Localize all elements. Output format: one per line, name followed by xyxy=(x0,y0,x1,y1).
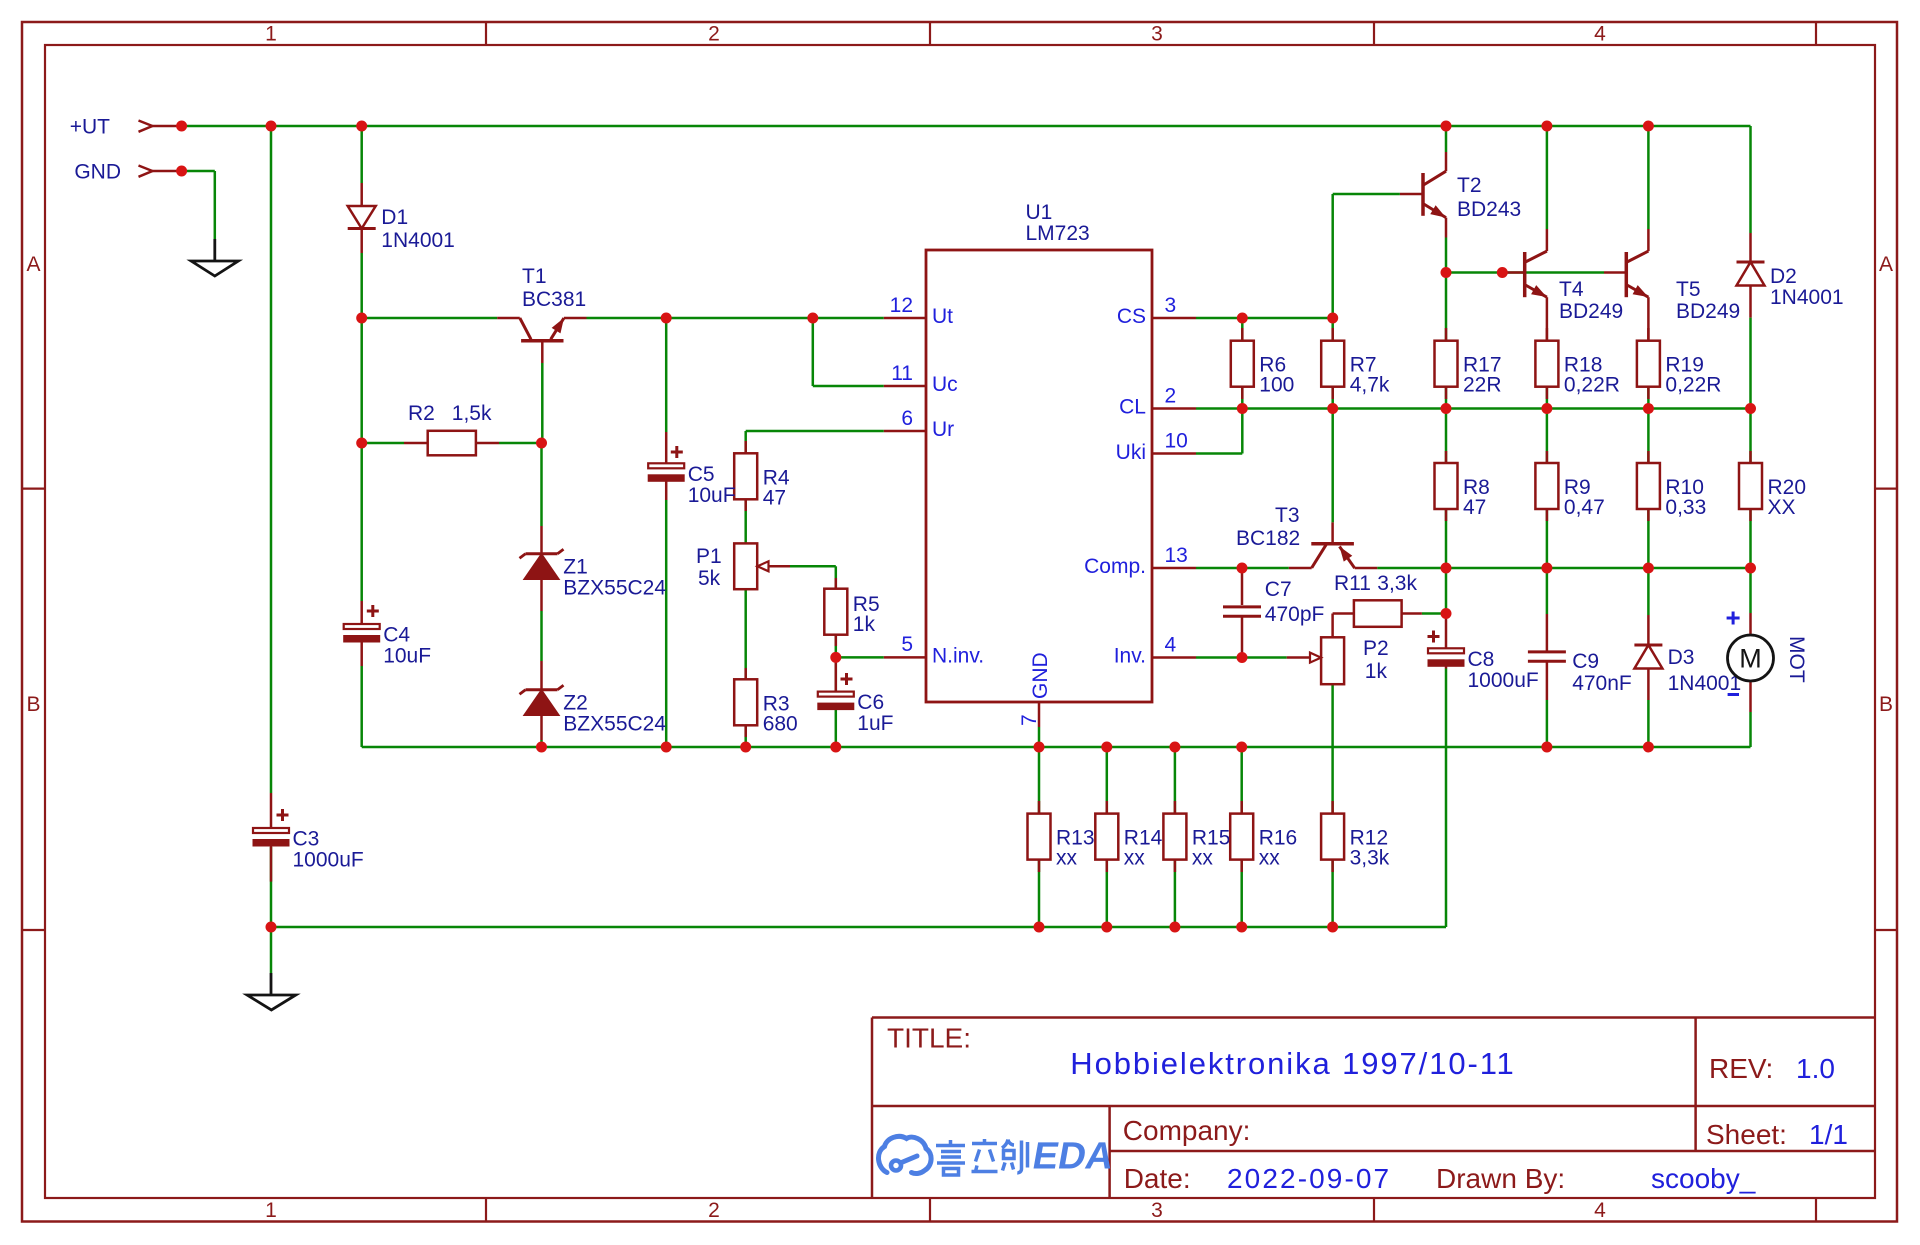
zener Z2 body xyxy=(520,685,564,715)
potentiometer P2 1k xyxy=(1287,637,1389,684)
wire node318 to T1 xyxy=(362,317,498,320)
svg-text:BZX55C24: BZX55C24 xyxy=(563,577,666,600)
wire GND input drop xyxy=(214,171,217,239)
resistor R3 680 xyxy=(734,668,798,737)
capacitor C3 1000uF xyxy=(253,809,364,872)
junction xyxy=(266,121,277,132)
junction xyxy=(1643,563,1654,574)
junction xyxy=(1237,403,1248,414)
svg-text:R2: R2 xyxy=(408,402,435,425)
svg-text:EDA: EDA xyxy=(1029,1135,1117,1178)
diode D1 1N4001 xyxy=(348,183,455,253)
svg-text:Drawn By:: Drawn By: xyxy=(1436,1163,1565,1194)
wire R12 to bus2 xyxy=(1331,860,1334,927)
wire base bus T4 T5 xyxy=(1446,271,1604,274)
wire Z1 to Z2 xyxy=(540,611,543,661)
svg-text:T3: T3 xyxy=(1275,504,1300,527)
svg-text:TITLE:: TITLE: xyxy=(887,1023,971,1054)
junction xyxy=(1034,922,1045,933)
diode D2 body xyxy=(1737,262,1765,286)
resistor R18 xyxy=(1535,341,1620,397)
junction xyxy=(1643,742,1654,753)
svg-text:6: 6 xyxy=(901,407,913,430)
ground (GND input) xyxy=(191,239,238,276)
svg-text:Comp.: Comp. xyxy=(1084,555,1146,578)
wire resistor row2 to comp row xyxy=(1749,509,1752,568)
resistor R9 xyxy=(1535,463,1604,519)
wire node to pin5 xyxy=(836,656,884,659)
junction xyxy=(1034,742,1045,753)
svg-text:3,3k: 3,3k xyxy=(1350,847,1390,870)
svg-text:11: 11 xyxy=(891,362,913,385)
capacitor C8 1000uF xyxy=(1428,631,1539,692)
svg-text:D3: D3 xyxy=(1668,646,1695,669)
svg-text:CS: CS xyxy=(1117,305,1146,328)
svg-text:xx: xx xyxy=(1259,847,1281,870)
svg-text:2022-09-07: 2022-09-07 xyxy=(1227,1163,1391,1194)
wire R2 to node xyxy=(499,442,542,445)
wire comp to C9 xyxy=(1546,568,1549,614)
svg-text:C8: C8 xyxy=(1468,648,1495,671)
transistor T3 BC182 xyxy=(1236,504,1377,568)
junction xyxy=(1745,403,1756,414)
wire resistor to bus2 xyxy=(1038,860,1041,927)
wire comp to D3 xyxy=(1647,568,1650,615)
svg-text:BD249: BD249 xyxy=(1559,300,1623,323)
junction xyxy=(356,313,367,324)
port +UT xyxy=(70,116,182,139)
wire CS row xyxy=(1196,317,1333,320)
wire CS to R6 xyxy=(1241,318,1244,341)
wire R2 node to C4 xyxy=(360,443,363,601)
wire CL row xyxy=(1196,407,1751,410)
resistor R11 3,3k xyxy=(1333,572,1422,637)
wire rail to D1 xyxy=(360,126,363,183)
junction xyxy=(536,438,547,449)
svg-text:0,22R: 0,22R xyxy=(1665,374,1721,397)
wire pin10 riser xyxy=(1241,409,1244,454)
svg-text:2: 2 xyxy=(708,1199,720,1222)
wire Z2 to bus1 xyxy=(540,740,543,747)
wire R19 to CL xyxy=(1647,387,1650,409)
wire node to R17 xyxy=(1445,273,1448,341)
svg-text:P1: P1 xyxy=(696,545,722,568)
wire D2 to CL xyxy=(1749,318,1752,409)
svg-text:1k: 1k xyxy=(1365,660,1388,683)
diode D1 body xyxy=(348,206,376,229)
svg-text:1N4001: 1N4001 xyxy=(1668,672,1742,695)
svg-text:Ur: Ur xyxy=(932,418,954,441)
wire T2 emitter down xyxy=(1445,238,1448,273)
wire bus1 to resistor xyxy=(1240,747,1243,814)
svg-text:47: 47 xyxy=(1463,496,1486,519)
svg-text:3: 3 xyxy=(1151,1199,1163,1222)
diode D2 1N4001 xyxy=(1737,233,1844,318)
svg-text:1k: 1k xyxy=(853,613,876,636)
wire P1 wiper xyxy=(768,565,836,568)
svg-text:12: 12 xyxy=(890,294,913,317)
junction xyxy=(830,652,841,663)
junction xyxy=(356,121,367,132)
wire resistor row2 to comp row xyxy=(1546,509,1549,568)
wire comp to MOT xyxy=(1749,568,1752,613)
port GND xyxy=(74,161,181,184)
wire C8 bottom xyxy=(1445,669,1448,681)
wire GND input xyxy=(182,170,215,173)
svg-text:Uki: Uki xyxy=(1116,441,1146,464)
resistor R8 xyxy=(1435,463,1490,519)
svg-text:C5: C5 xyxy=(688,463,715,486)
U1 pin stubs xyxy=(884,318,1196,727)
ground (C3) xyxy=(247,973,296,1010)
svg-text:3: 3 xyxy=(1151,23,1163,46)
transistor T5 BD249 xyxy=(1604,229,1740,341)
junction xyxy=(1441,121,1452,132)
svg-text:2: 2 xyxy=(1165,385,1177,408)
junction xyxy=(266,922,277,933)
wire bus2 up to C8 xyxy=(1445,680,1448,927)
wire D3 to bus1 xyxy=(1647,700,1650,747)
zener Z2 BZX55C24 xyxy=(520,661,667,740)
wire T2 base riser xyxy=(1331,194,1334,318)
wire C5 to bus1 xyxy=(665,500,668,747)
junction xyxy=(1237,563,1248,574)
resistor R12 xyxy=(1321,814,1390,870)
svg-text:Uc: Uc xyxy=(932,373,958,396)
svg-text:100: 100 xyxy=(1259,374,1294,397)
wire T1 base to R2 node xyxy=(541,363,544,443)
wire C9 to bus1 xyxy=(1546,700,1549,747)
svg-text:T4: T4 xyxy=(1559,278,1584,301)
resistor R5 1k xyxy=(824,578,879,646)
junction xyxy=(1643,121,1654,132)
wire node to C5 xyxy=(665,318,668,432)
junction xyxy=(1441,563,1452,574)
cap C8 red stubs xyxy=(1445,614,1448,669)
svg-text:1N4001: 1N4001 xyxy=(381,229,455,252)
svg-text:3,3k: 3,3k xyxy=(1377,572,1417,595)
junction xyxy=(740,742,751,753)
capacitor C5 10uF xyxy=(648,446,735,507)
junction xyxy=(1541,121,1552,132)
resistor R20 xyxy=(1739,463,1806,519)
svg-text:10uF: 10uF xyxy=(383,645,431,668)
svg-text:BD243: BD243 xyxy=(1457,198,1521,221)
wire R4 to P1 xyxy=(744,499,747,543)
junction xyxy=(830,742,841,753)
wire C4 to bus1 xyxy=(360,666,363,747)
wire comp row right xyxy=(1377,567,1750,570)
junction xyxy=(1327,922,1338,933)
transistor T2 BD243 xyxy=(1400,152,1521,238)
svg-text:C6: C6 xyxy=(857,691,884,714)
svg-text:A: A xyxy=(26,253,40,276)
junction xyxy=(1237,652,1248,663)
junction xyxy=(1101,922,1112,933)
junction xyxy=(1541,742,1552,753)
wire branch pin11 xyxy=(812,318,815,386)
junction xyxy=(661,742,672,753)
wire bus1 to resistor xyxy=(1106,747,1109,814)
junction xyxy=(536,742,547,753)
junction xyxy=(1441,608,1452,619)
resistor R16 xyxy=(1230,814,1297,870)
svg-text:4,7k: 4,7k xyxy=(1350,374,1390,397)
wire C3 to bus2 xyxy=(270,847,273,927)
resistor R10 xyxy=(1637,463,1706,519)
junction xyxy=(176,121,187,132)
junction xyxy=(661,313,672,324)
zener Z1 body xyxy=(520,549,564,579)
junction xyxy=(1327,403,1338,414)
cap C3 red stubs xyxy=(270,793,273,882)
junction xyxy=(1541,563,1552,574)
svg-text:Company:: Company: xyxy=(1123,1115,1251,1146)
resistor R13 xyxy=(1028,814,1095,870)
svg-text:4: 4 xyxy=(1594,23,1606,46)
diode D3 1N4001 xyxy=(1634,615,1741,700)
wire to R5 xyxy=(835,566,838,588)
wire +UT rail drop to D2 xyxy=(1749,126,1752,233)
wire CL to resistor row2 xyxy=(1749,409,1752,464)
junction xyxy=(1643,403,1654,414)
svg-text:1uF: 1uF xyxy=(857,712,893,735)
junction xyxy=(1236,922,1247,933)
wire comp node to C8 node xyxy=(1445,568,1448,614)
wire +UT rail xyxy=(182,125,1751,128)
svg-text:BD249: BD249 xyxy=(1676,300,1740,323)
svg-text:XX: XX xyxy=(1768,496,1796,519)
svg-text:xx: xx xyxy=(1192,847,1214,870)
wire bus1 ground bus xyxy=(362,746,1751,749)
cap C9 red stubs xyxy=(1546,614,1549,700)
wire pin10 xyxy=(1196,452,1242,455)
svg-text:P2: P2 xyxy=(1363,637,1389,660)
wire to Z1 xyxy=(540,443,543,526)
svg-text:470pF: 470pF xyxy=(1265,603,1325,626)
svg-text:0,22R: 0,22R xyxy=(1564,374,1620,397)
svg-text:10: 10 xyxy=(1165,430,1188,453)
wire R5 to node xyxy=(835,635,838,658)
svg-text:CL: CL xyxy=(1119,396,1146,419)
svg-text:+UT: +UT xyxy=(70,116,110,139)
junction xyxy=(1169,922,1180,933)
junction xyxy=(1441,403,1452,414)
capacitor C9 470nF xyxy=(1528,650,1632,695)
svg-text:Ut: Ut xyxy=(932,305,953,328)
wire resistor to bus2 xyxy=(1174,860,1177,927)
wire pin7 to bus1 xyxy=(1038,727,1041,747)
junction xyxy=(807,313,818,324)
wire pin6 corner to R4 xyxy=(744,431,747,453)
svg-text:Inv.: Inv. xyxy=(1114,645,1146,668)
svg-text:D2: D2 xyxy=(1770,265,1797,288)
wire rail to T2 collector xyxy=(1445,126,1448,152)
svg-text:B: B xyxy=(26,693,40,716)
wire comp row left xyxy=(1196,567,1289,570)
svg-text:BC182: BC182 xyxy=(1236,527,1300,550)
svg-text:C4: C4 xyxy=(383,624,410,647)
resistor pin stubs xyxy=(1039,328,1751,872)
svg-text:MOT: MOT xyxy=(1785,636,1808,683)
svg-text:0,47: 0,47 xyxy=(1564,496,1605,519)
svg-text:22R: 22R xyxy=(1463,374,1502,397)
wire CL to resistor row2 xyxy=(1647,409,1650,464)
svg-text:5: 5 xyxy=(901,633,913,656)
cap C5 red stubs xyxy=(665,432,668,500)
junction xyxy=(1745,563,1756,574)
svg-text:1: 1 xyxy=(265,1199,277,1222)
wire R11 to C8 node xyxy=(1422,612,1446,615)
wire T1 to pin12 xyxy=(587,317,884,320)
junction xyxy=(1237,313,1248,324)
svg-text:Z1: Z1 xyxy=(563,556,588,579)
U1 pin numbers xyxy=(890,294,1188,726)
junction xyxy=(1101,742,1112,753)
wire rail to T4 collector xyxy=(1546,126,1549,229)
svg-text:C9: C9 xyxy=(1572,650,1599,673)
wire inv row xyxy=(1196,656,1287,659)
svg-text:LM723: LM723 xyxy=(1026,222,1090,245)
svg-text:1.0: 1.0 xyxy=(1796,1053,1835,1084)
svg-text:M: M xyxy=(1739,644,1762,674)
svg-text:Date:: Date: xyxy=(1124,1163,1191,1194)
svg-text:B: B xyxy=(1879,693,1893,716)
svg-text:xx: xx xyxy=(1124,847,1146,870)
resistor R2 1,5k xyxy=(404,402,499,455)
wire to T2 base xyxy=(1333,193,1400,196)
svg-text:R11: R11 xyxy=(1334,572,1371,595)
svg-text:470nF: 470nF xyxy=(1572,672,1632,695)
transistor T1 BC381 xyxy=(497,265,586,363)
wire to pin11 xyxy=(813,385,884,388)
svg-text:T5: T5 xyxy=(1676,278,1701,301)
wire bus2 to ground xyxy=(270,927,273,973)
svg-text:1000uF: 1000uF xyxy=(293,849,364,872)
wire bus1 to resistor xyxy=(1174,747,1177,814)
resistor R6 xyxy=(1231,341,1295,397)
wire P2 to R12 xyxy=(1331,684,1334,813)
svg-text:47: 47 xyxy=(763,486,786,509)
svg-text:U1: U1 xyxy=(1026,201,1053,224)
U1 pin names xyxy=(932,305,1146,699)
svg-text:T1: T1 xyxy=(522,265,547,288)
resistor R7 xyxy=(1321,341,1390,397)
svg-text:3: 3 xyxy=(1165,294,1177,317)
svg-text:D1: D1 xyxy=(381,206,408,229)
wire resistor to bus2 xyxy=(1106,860,1109,927)
wire rail to T5 collector xyxy=(1647,126,1650,229)
wire node to C6 xyxy=(835,657,838,691)
svg-text:Sheet:: Sheet: xyxy=(1706,1119,1787,1150)
svg-text:0,33: 0,33 xyxy=(1665,496,1706,519)
junction xyxy=(1236,742,1247,753)
diode D3 body xyxy=(1634,645,1662,669)
svg-text:1,5k: 1,5k xyxy=(452,402,492,425)
potentiometer P1 5k xyxy=(696,543,790,590)
capacitor C7 470pF xyxy=(1223,578,1324,626)
wire D1 to R2 node xyxy=(360,253,363,443)
wire CL to T3 collector xyxy=(1331,409,1334,523)
svg-text:C3: C3 xyxy=(293,828,320,851)
resistor R15 xyxy=(1163,814,1230,870)
cap C6 red stubs xyxy=(835,657,838,710)
svg-text:T2: T2 xyxy=(1457,174,1482,197)
wire node to R7 xyxy=(1331,318,1334,341)
transistor T4 BD249 xyxy=(1502,229,1623,341)
wire CL to resistor row2 xyxy=(1546,409,1549,464)
wire resistor to bus2 xyxy=(1240,860,1243,927)
svg-text:4: 4 xyxy=(1594,1199,1606,1222)
zener Z1 BZX55C24 xyxy=(520,526,667,611)
title block xyxy=(872,1018,1875,1199)
wire +UT to C3 xyxy=(270,126,273,793)
wire R18 to CL xyxy=(1546,387,1549,409)
wire R17 to CL xyxy=(1445,387,1448,409)
junction xyxy=(1497,267,1508,278)
wire to R2 xyxy=(362,442,404,445)
resistor R14 xyxy=(1095,814,1162,870)
junction xyxy=(1441,267,1452,278)
svg-text:1: 1 xyxy=(265,23,277,46)
wire resistor row2 to comp row xyxy=(1647,509,1650,568)
wire R4 to pin6 xyxy=(746,430,884,433)
wire P1 to R3 xyxy=(744,589,747,679)
svg-text:1/1: 1/1 xyxy=(1809,1119,1848,1150)
wire resistor row2 to comp row xyxy=(1445,509,1448,568)
wire R7 to CL xyxy=(1331,387,1334,409)
svg-text:GND: GND xyxy=(1029,652,1052,699)
svg-text:1N4001: 1N4001 xyxy=(1770,286,1844,309)
svg-text:REV:: REV: xyxy=(1709,1053,1773,1084)
cap C7 red stubs xyxy=(1241,568,1244,658)
svg-text:GND: GND xyxy=(74,161,121,184)
svg-text:BC381: BC381 xyxy=(522,288,586,311)
svg-text:13: 13 xyxy=(1165,544,1188,567)
wire bus2 xyxy=(271,926,1446,929)
motor MOT xyxy=(1727,612,1808,713)
svg-text:4: 4 xyxy=(1165,634,1177,657)
svg-text:xx: xx xyxy=(1056,847,1078,870)
cap C4 red stubs xyxy=(360,601,363,666)
svg-text:Z2: Z2 xyxy=(563,692,588,715)
svg-text:N.inv.: N.inv. xyxy=(932,645,984,668)
wire R3 to bus1 xyxy=(744,725,747,747)
svg-text:7: 7 xyxy=(1018,714,1041,726)
svg-text:1000uF: 1000uF xyxy=(1468,669,1539,692)
junction xyxy=(1169,742,1180,753)
junction xyxy=(1541,403,1552,414)
JLC EDA logo xyxy=(879,1136,932,1173)
svg-text:BZX55C24: BZX55C24 xyxy=(563,713,666,736)
svg-text:A: A xyxy=(1879,253,1893,276)
wire CL to resistor row2 xyxy=(1445,409,1448,464)
resistor R19 xyxy=(1637,341,1722,397)
svg-text:2: 2 xyxy=(708,23,720,46)
svg-text:5k: 5k xyxy=(698,567,721,590)
junction xyxy=(1327,313,1338,324)
svg-text:Hobbielektronika 1997/10-11: Hobbielektronika 1997/10-11 xyxy=(1070,1046,1515,1081)
op-amp / regulator U1 LM723 xyxy=(926,201,1152,702)
wire C6 to bus1 xyxy=(835,710,838,747)
svg-text:C7: C7 xyxy=(1265,578,1292,601)
wire MOT to bus1 xyxy=(1749,712,1752,747)
svg-text:10uF: 10uF xyxy=(688,484,736,507)
wire R6 to CL xyxy=(1241,387,1244,409)
svg-text:680: 680 xyxy=(763,712,798,735)
junction xyxy=(176,166,187,177)
svg-text:scooby_: scooby_ xyxy=(1651,1163,1756,1194)
